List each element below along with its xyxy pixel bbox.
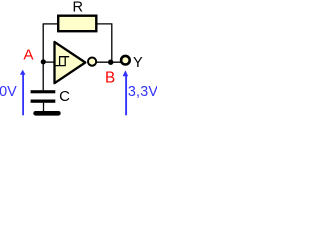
wire: feedback top right segment from resistor and down to output node — [97, 24, 112, 62]
op-amp U1: Schmitt-trigger inverter triangle — [55, 42, 86, 83]
wire: output wire from bubble to terminal Y — [97, 61, 121, 63]
capacitor C bottom plate — [31, 100, 56, 103]
svg-text:Y: Y — [133, 55, 143, 71]
node A junction dot — [41, 59, 46, 64]
wire: input wire from node A to inverter — [43, 61, 55, 63]
wire: left vertical from feedback corner through node A down to capacitor — [42, 24, 44, 91]
svg-text:3,3V: 3,3V — [128, 84, 157, 100]
3,3V arrow — [123, 70, 129, 76]
svg-text:A: A — [23, 47, 34, 64]
ground bar — [33, 111, 60, 116]
svg-text:C: C — [59, 88, 70, 105]
svg-text:B: B — [105, 69, 115, 86]
hysteresis symbol inside inverter — [55, 57, 69, 66]
node B junction dot — [108, 60, 113, 65]
resistor R — [58, 16, 96, 32]
terminal Y open circle — [121, 56, 130, 65]
inverter output bubble — [88, 58, 96, 66]
0V arrow — [20, 70, 26, 75]
capacitor C top plate — [31, 90, 56, 93]
svg-text:0V: 0V — [0, 84, 17, 100]
wire: feedback top left segment to resistor — [43, 23, 58, 25]
svg-text:R: R — [73, 0, 84, 16]
wire: stub from capacitor to ground bar — [43, 103, 45, 112]
